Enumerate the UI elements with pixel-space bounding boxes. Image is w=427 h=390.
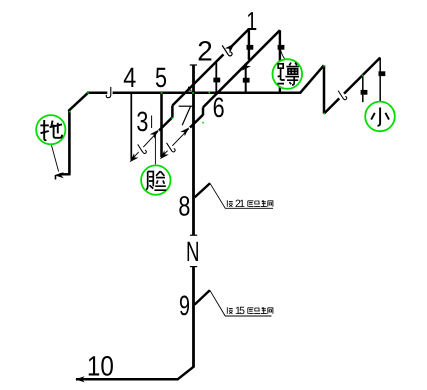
junction green dots [69,65,363,123]
riser segment2 start T-bar [190,266,197,268]
svg-text:1: 1 [246,6,257,36]
svg-text:21: 21 [235,198,245,210]
arrow on diagonal A upper [225,41,237,53]
break curl on branch A lower [138,144,147,153]
arrow at vertical4 foot [127,153,138,164]
tick from diagonal C down (fixture) [362,75,364,102]
tick T1 from diagonal A down to main [215,63,217,93]
svg-text:10: 10 [87,350,114,381]
arrow on branch B (points up-right) [180,125,191,136]
text: connect 21F toilet [227,200,273,207]
leader from vertical2 to DUN circle [281,51,285,59]
break curl on diagonal A upper [222,45,232,56]
wire: valley drop vertical [323,65,326,113]
wire: branch to 15F toilet (thick part) [195,290,210,304]
wire: branch A thick jog diagonal [159,117,172,130]
wire: vertical 1b to main [245,64,247,93]
text: connect 15F toilet [227,307,273,314]
circle label XIAO (urinal) [365,102,395,132]
wire: urinal drop from peak 4 [379,58,381,101]
wire: diagonal A long run to peak 1 [172,29,249,106]
arrow at vertical5 foot [158,150,169,161]
small tick near label 3 [151,116,153,129]
svg-text:15: 15 [235,305,245,317]
wire: vertical 1a from peak1 down to diagonal B [248,29,250,60]
leader thin part + underline (21F) [210,183,273,208]
arrow at mop branch foot (points left) [54,172,64,178]
riser segment1 end T-bar [190,234,197,236]
square dot on tick [361,90,368,95]
arrow on branch A (points up-right) [150,128,161,139]
svg-text:2: 2 [197,36,213,67]
svg-text:3: 3 [136,106,148,137]
svg-text:9: 9 [179,290,190,321]
wire: bottom outlet horizontal [76,378,179,381]
svg-text:5: 5 [155,62,167,93]
wire: elbow diagonal up to main [68,93,88,111]
svg-text:4: 4 [123,62,136,93]
flow arrow on diagonal B at crossing (points down-left) [240,62,251,73]
wire: bottom elbow diagonal [178,366,195,379]
break curl on diagonal C [338,91,347,100]
break curl on branch B lower [167,143,176,152]
break symbol on main horizontal [106,87,111,98]
wire: vertical 2 from peak2 to main [279,30,281,93]
circle label DUN (squat wc) [273,59,303,89]
leader from TUO circle to foot [52,145,59,171]
square dot on vertical 1b [243,78,250,83]
square dot on vertical 1a [247,45,254,50]
svg-text:6: 6 [213,92,225,123]
label 7 drawn as lines with tick to riser [179,106,193,125]
circle label TUO (mop) [36,115,65,144]
square dot on tick T1 [213,78,220,83]
wire: riser lower segment [192,267,195,367]
wire: vertical 5 drop [160,93,163,157]
wire: branch A thin lower diagonal [132,131,158,159]
svg-text:8: 8 [178,191,190,222]
wire: vertical 4 drop [130,93,132,160]
wire: branch B thick jog diagonal [190,115,203,128]
wire: branch B jog vertical [202,107,205,115]
wire: branch to 21F toilet (thick part) [195,183,210,197]
wire: diagonal C up to peak 4 [324,58,380,114]
leader from LIAN circle up to branch A [154,135,156,165]
flow arrow on diagonal A near riser [188,86,192,90]
wire: diagonal up from main end [300,65,324,93]
leader thin part + underline (15F) [210,290,272,316]
svg-text:N: N [186,236,200,267]
wire: branch B thin lower diagonal [163,129,189,156]
arrow at bottom outlet (points left) [75,376,85,382]
wire: mop branch drop vertical [68,110,71,174]
square dot on vertical 2 [278,45,285,50]
riser top T-bar [190,64,197,66]
wire: diagonal B long run to peak 2 [203,30,280,107]
circle label LIAN (wash basin) [141,165,170,194]
wire: mop branch foot horizontal [60,173,71,175]
wire: riser upper segment [192,65,195,235]
wire: branch A jog vertical [171,106,174,118]
square dot on urinal drop [379,71,386,76]
wire: main horizontal collector [87,92,107,95]
